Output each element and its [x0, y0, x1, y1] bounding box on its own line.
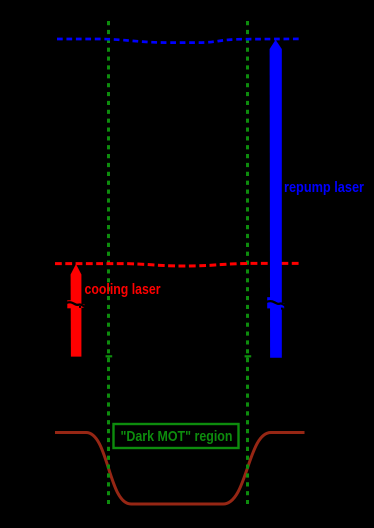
red dashed level line (cooling level, slight dip in middle): [55, 263, 300, 266]
svg-text:repump laser: repump laser: [284, 179, 364, 196]
svg-text:"Dark MOT" region: "Dark MOT" region: [121, 428, 233, 445]
green box around Dark MOT region label: [114, 424, 239, 448]
green dotted line left (dark region boundary): [107, 21, 110, 504]
svg-text:cooling laser: cooling laser: [85, 281, 161, 298]
green T tick on left dotted line: [106, 355, 113, 357]
blue arrow (repump laser beam): [270, 40, 282, 358]
blue arrow break symbol: [267, 297, 270, 308]
blue dashed level line (excited level, slight dip in middle): [57, 39, 299, 43]
curve: atom density profile (dark red): [55, 433, 305, 505]
red arrow break symbol: [67, 300, 71, 308]
green dotted line right (dark region boundary): [246, 21, 249, 504]
red arrow (cooling laser beam): [71, 264, 82, 357]
green T tick on right dotted line: [245, 355, 252, 357]
